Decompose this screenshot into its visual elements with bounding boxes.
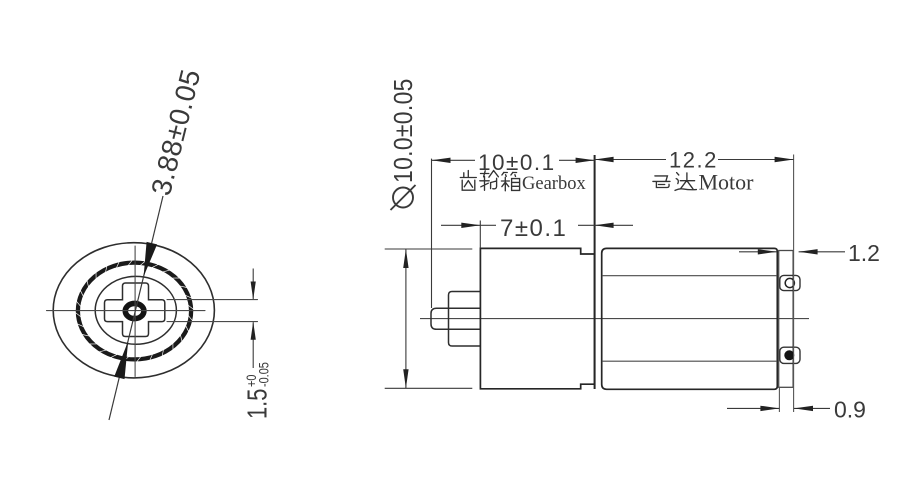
dimension 1.5 line upper [252,269,254,369]
arrow 10 right [576,158,595,163]
svg-text:-0.05: -0.05 [256,362,272,387]
terminal solder blob bottom [784,350,794,360]
arrow Ø10 bottom [403,369,408,388]
center hub ring [125,303,144,318]
dimension 7±0.1 [441,224,633,226]
arrow 1.5 lower [251,322,256,340]
svg-text:10±0.1: 10±0.1 [478,150,556,175]
arrow 1.2 right [799,249,818,254]
dimension Ø10 vertical line [405,249,407,388]
svg-text:Motor: Motor [699,170,755,195]
terminal tab bottom [780,347,800,363]
cross slot shaft profile [105,283,165,337]
extension line gearbox face upper [479,221,481,249]
horizontal centerline side view [420,318,809,320]
motor body [602,248,778,389]
dimension text 1.5 +0 -0.05 [242,362,273,419]
dimension Ø10.0±0.05 extension top [385,248,473,250]
svg-text:7±0.1: 7±0.1 [500,215,567,242]
dimension Ø10.0±0.05 extension bottom [385,387,473,389]
arrow 12.2 right [775,157,794,162]
motor can silhouette line lower [602,360,777,362]
arrow 3.88 upper wedge [144,242,158,277]
arrow 3.88 lower wedge [114,341,128,379]
arrow 7 right [595,223,614,228]
horizontal centerline [47,310,206,312]
arrow 1.5 upper [251,282,256,300]
dimension text Ø10.0±0.05 [390,78,419,183]
arrow 0.9 left [760,406,779,411]
dimension 3.88 diagonal line [109,196,163,420]
label gearbox CJK 齿轮箱 [460,171,519,191]
knurled ring [75,260,193,362]
svg-text:Gearbox: Gearbox [522,174,586,194]
output shaft [431,308,481,329]
dimension text 3.88±0.05 [145,66,206,199]
motor end cap [779,251,793,388]
vertical centerline [134,246,136,377]
label motor CJK 马达 [653,173,697,191]
arrow 1.2 left [758,249,777,254]
arrow Ø10 top [403,249,408,268]
arrow 0.9 right [794,406,813,411]
gearbox body [480,248,594,388]
extension line slot top [167,299,258,301]
svg-text:1.2: 1.2 [848,240,880,266]
terminal tab top [780,275,800,290]
extension line cap left lower [778,388,780,413]
extension line shaft tip [431,159,433,308]
outer housing circle [53,243,214,378]
motor can silhouette line upper [602,275,777,277]
dimension 12.2 [595,159,794,161]
svg-text:0.9: 0.9 [834,397,866,423]
arrow 7 left [461,223,480,228]
dimension 10±0.1 [432,159,595,161]
arrow 10 left [432,158,451,163]
diameter symbol [391,185,416,210]
dimension 0.9 [727,407,830,409]
inner circle [95,276,176,344]
extension line cap right [793,155,795,413]
gearbox/motor interface line [594,155,596,389]
svg-text:1.5: 1.5 [242,389,273,419]
svg-text:10.0±0.05: 10.0±0.05 [390,78,419,183]
terminal hole top [785,278,794,287]
extension line slot bottom [167,321,258,323]
dimension 1.2 [739,251,845,253]
bearing bushing [449,292,481,347]
arrow 12.2 left [595,157,614,162]
